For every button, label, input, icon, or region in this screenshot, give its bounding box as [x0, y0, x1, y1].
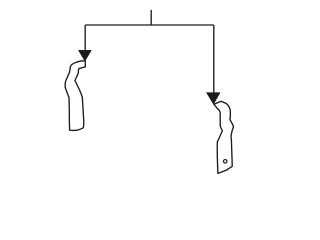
wire right vertical	[213, 25, 215, 93]
wire horizontal	[85, 24, 214, 26]
wire top tick	[150, 10, 152, 25]
arrow left	[78, 50, 91, 61]
hole in right bracket	[223, 160, 227, 164]
part left bracket	[65, 61, 85, 131]
arrow right	[206, 93, 220, 105]
wire left vertical	[84, 25, 86, 50]
part right bracket	[214, 101, 234, 173]
